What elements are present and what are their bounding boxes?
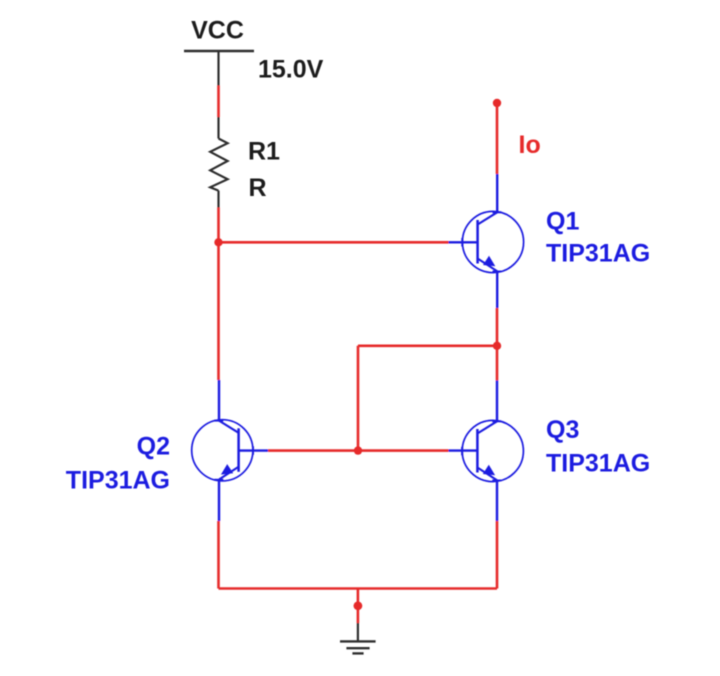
svg-text:Io: Io	[519, 131, 541, 159]
svg-text:15.0V: 15.0V	[258, 56, 324, 84]
junction node C	[354, 446, 362, 454]
svg-text:TIP31AG: TIP31AG	[66, 466, 170, 494]
wire node B to Q3 collector	[496, 346, 499, 381]
svg-text:R: R	[249, 174, 267, 202]
wire node A to Q1 base	[219, 241, 449, 244]
wire rail to ground junction	[357, 589, 360, 603]
svg-text:Q3: Q3	[546, 416, 579, 444]
junction node A	[214, 238, 222, 246]
junction node B	[493, 342, 501, 350]
svg-text:TIP31AG: TIP31AG	[546, 449, 650, 477]
wire feedback vertical to node C	[357, 346, 360, 451]
transistor Q1	[449, 174, 524, 308]
svg-text:R1: R1	[248, 138, 280, 166]
wire Q1 emitter to node B	[496, 308, 499, 346]
wire VCC to R1	[217, 86, 220, 118]
svg-text:Q2: Q2	[137, 433, 170, 461]
svg-text:Q1: Q1	[546, 208, 579, 236]
wire node C to Q3 base	[358, 449, 449, 452]
resistor R1	[210, 117, 227, 208]
junction node GND	[354, 601, 363, 610]
wire Io to Q1 collector	[496, 106, 499, 174]
wire junction to ground	[357, 609, 360, 623]
transistor Q2	[192, 380, 268, 521]
wire node A to Q2 collector	[217, 242, 220, 380]
svg-text:TIP31AG: TIP31AG	[546, 239, 650, 267]
wire R1 to node A	[217, 208, 220, 243]
wire bottom rail	[219, 587, 498, 590]
power VCC	[184, 17, 254, 86]
ground	[340, 623, 376, 653]
terminal Io	[493, 99, 501, 107]
wire Q2 base to node C	[268, 449, 358, 452]
wire node B horizontal feedback	[358, 344, 497, 347]
svg-text:VCC: VCC	[191, 17, 244, 45]
wire Q3 emitter down	[496, 521, 499, 589]
transistor Q3	[449, 381, 524, 522]
wire Q2 emitter down	[217, 521, 220, 589]
